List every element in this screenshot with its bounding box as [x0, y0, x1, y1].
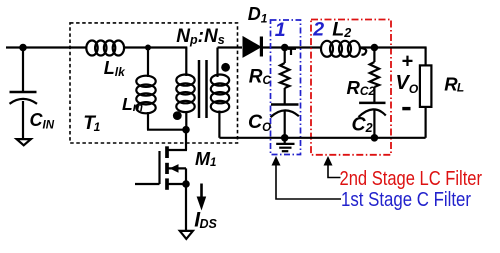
wire: primary bottom lead [185, 111, 187, 130]
svg-text:1: 1 [275, 19, 286, 41]
box: 1st stage (blue dash-dot) [271, 20, 301, 155]
source lead [169, 183, 187, 185]
svg-text:2nd Stage LC Filter: 2nd Stage LC Filter [340, 168, 483, 190]
node: Lm tap [145, 45, 151, 51]
node: first stage node [281, 44, 289, 52]
current arrow IDS [197, 184, 207, 211]
ground (MOSFET source) [180, 231, 193, 239]
pointer arrow to 2nd stage box [324, 156, 341, 178]
svg-text:2: 2 [312, 18, 324, 40]
node: source junction [182, 180, 190, 188]
node: output ground node [281, 134, 289, 142]
MOSFET M1 [135, 130, 187, 231]
body arrow line [169, 167, 187, 169]
wire: primary bottom rail [147, 129, 187, 131]
body arrow head [170, 164, 179, 173]
wire: input node down to C_IN [22, 48, 24, 93]
resistor RL (box) [420, 65, 432, 107]
wire: secondary top to diode [218, 46, 243, 48]
label - [402, 107, 410, 110]
capacitor C2 [359, 103, 386, 138]
inductor Llk [86, 41, 124, 56]
wire: Lm bottom lead [147, 112, 149, 130]
box: 2nd stage (red dash-dot) [311, 20, 391, 155]
wire: L2 to load corner [359, 46, 427, 48]
svg-text:1st Stage C Filter: 1st Stage C Filter [341, 189, 471, 211]
transformer core [198, 60, 201, 118]
gate bar [158, 151, 160, 184]
capacitor Co [271, 105, 299, 138]
resistor RC2 [370, 48, 379, 103]
node: input node [19, 44, 27, 52]
wire: load right leads [425, 48, 427, 67]
node: primary bottom junction [182, 126, 190, 134]
transformer primary winding [176, 75, 194, 113]
ground (input) [17, 139, 31, 145]
wire: stub hook at first stage node [288, 48, 296, 50]
wire: secondary bottom lead [218, 111, 220, 138]
transformer dot (secondary) [221, 63, 230, 72]
wire: secondary top lead [216, 48, 218, 78]
drain lead [185, 130, 187, 150]
inductor L2 [321, 41, 366, 57]
inductor Lm [136, 76, 155, 114]
gate lead [135, 183, 160, 185]
resistor RC (ESR of Co) [280, 48, 289, 105]
channel bars [165, 146, 169, 158]
svg-text:Np:Ns: Np:Ns [176, 26, 224, 47]
diode D1 [243, 37, 261, 57]
wire: down to Lm [147, 48, 149, 78]
wire: diode to L2 [262, 46, 322, 48]
ground (output, earth style) [276, 138, 294, 151]
node: second stage node [371, 44, 379, 52]
wire: primary top lead [185, 48, 187, 77]
transformer dot (primary) [173, 111, 182, 120]
wire: input top rail [6, 46, 87, 48]
transformer box T1 (dashed) [70, 23, 238, 143]
node: C2 bottom [371, 134, 379, 142]
wire: output bottom rail [219, 137, 425, 139]
transformer secondary winding [211, 75, 229, 113]
capacitor C_IN [10, 92, 38, 138]
svg-text:+: + [401, 51, 413, 73]
pointer arrow to 1st stage box [272, 156, 342, 199]
